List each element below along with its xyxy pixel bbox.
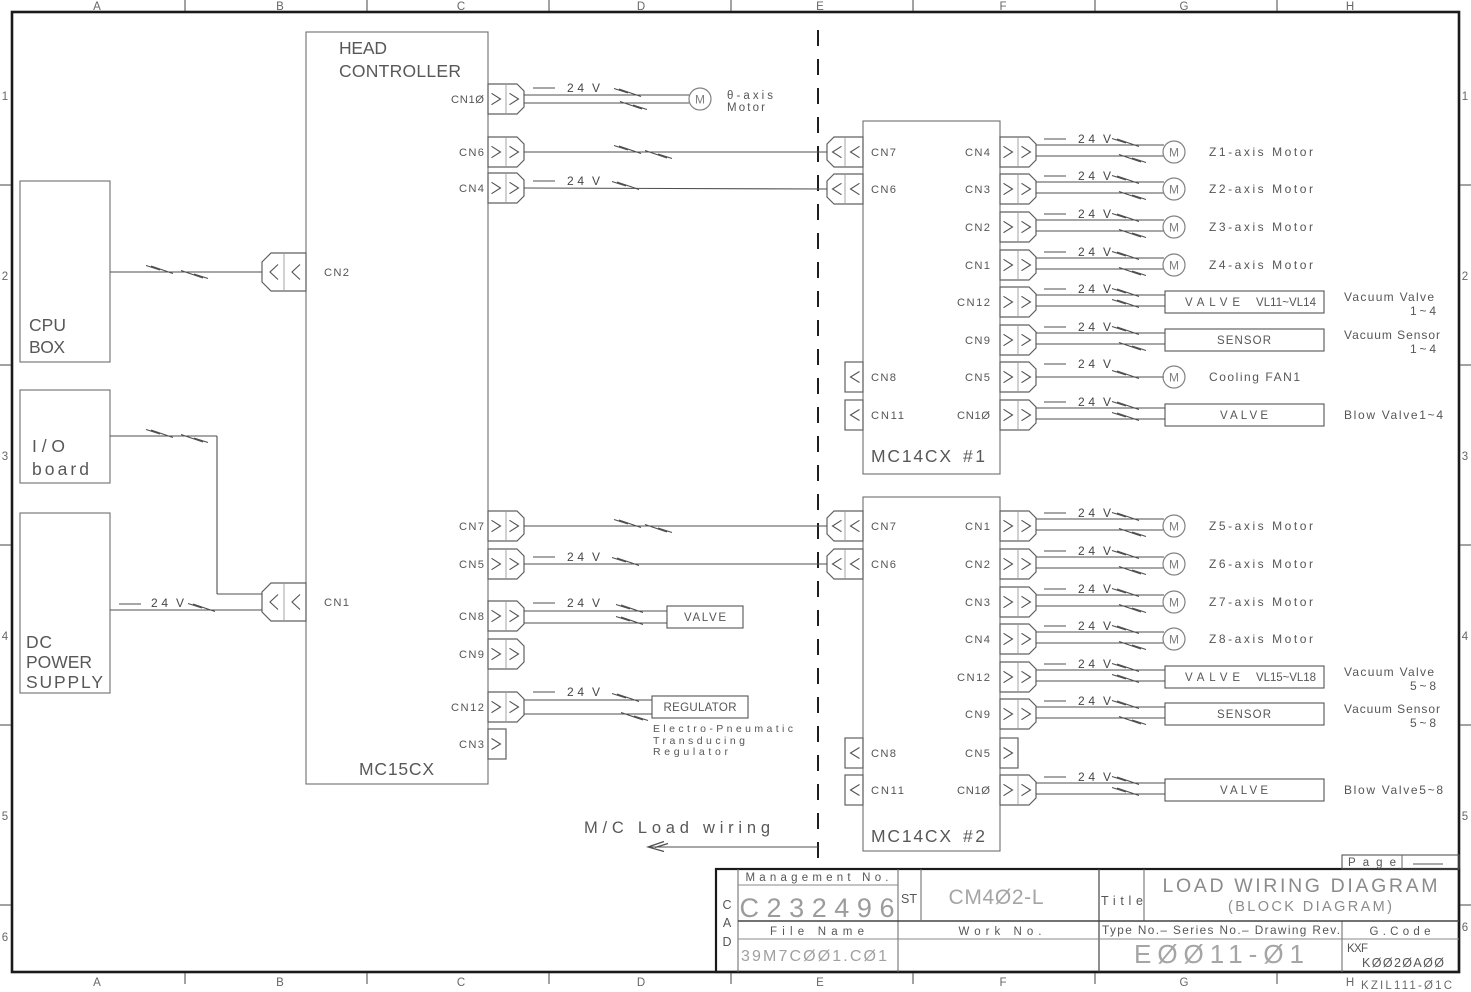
box VALVE xyxy=(1165,666,1324,688)
wire to Z8-axis Motor xyxy=(1036,619,1164,650)
svg-text:G: G xyxy=(1180,1,1189,13)
svg-text:CN9: CN9 xyxy=(965,335,990,347)
arrow M/C load wiring xyxy=(648,842,818,852)
svg-text:CN4: CN4 xyxy=(459,183,484,195)
connector CN1 (HEAD CONTROLLER) xyxy=(262,583,349,621)
label M/C Load wiring xyxy=(584,819,770,837)
connector CN4 right xyxy=(965,624,1036,654)
connector CN9 (HEAD CONTROLLER) xyxy=(459,639,524,669)
svg-text:CN4: CN4 xyxy=(965,634,990,646)
svg-text:CN1Ø: CN1Ø xyxy=(957,785,990,797)
label ('Vacuum Valve', 90) xyxy=(1344,290,1436,318)
motor theta-axis xyxy=(689,88,773,114)
svg-text:5: 5 xyxy=(2,811,8,823)
svg-text:CN9: CN9 xyxy=(459,649,484,661)
svg-text:3: 3 xyxy=(1462,451,1468,463)
svg-text:C: C xyxy=(457,1,465,13)
label Electro-Pneumatic Transducing Regulator xyxy=(653,723,793,758)
wire to VALVE box xyxy=(1036,770,1165,796)
ruler numbers right xyxy=(1462,91,1469,934)
svg-text:File Name: File Name xyxy=(770,926,864,938)
svg-text:SENSOR: SENSOR xyxy=(1217,709,1271,721)
connector CN8 (HEAD CONTROLLER) xyxy=(459,601,524,631)
wire to SENSOR box xyxy=(1036,694,1165,725)
ruler ticks left xyxy=(0,185,11,905)
svg-text:B: B xyxy=(276,1,284,13)
motor Z8-axis Motor xyxy=(1163,628,1313,650)
wire HEAD CN5 24V to MC14CX#2 CN6 xyxy=(524,550,827,566)
label ('Blow Valve5~8', 99) xyxy=(1344,783,1443,797)
svg-text:Vacuum Sensor: Vacuum Sensor xyxy=(1344,328,1440,342)
svg-text:Blow Valve1~4: Blow Valve1~4 xyxy=(1344,408,1443,422)
motor Z1-axis Motor xyxy=(1163,141,1313,163)
svg-text:Title: Title xyxy=(1101,894,1143,908)
connector CN6 (HEAD CONTROLLER) xyxy=(459,137,524,167)
svg-text:CN1: CN1 xyxy=(324,597,349,609)
connector CN7 left 2cell xyxy=(827,137,896,167)
wire to Z5-axis Motor xyxy=(1036,506,1164,537)
svg-text:CN8: CN8 xyxy=(871,372,896,384)
svg-text:H: H xyxy=(1346,977,1354,989)
box SENSOR xyxy=(1165,329,1324,351)
svg-text:CN6: CN6 xyxy=(459,147,484,159)
svg-text:4: 4 xyxy=(2,631,9,643)
svg-text:2: 2 xyxy=(2,271,8,283)
wire to Z1-axis Motor xyxy=(1036,132,1164,163)
motor Z4-axis Motor xyxy=(1163,254,1313,276)
box VALVE (head CN8) xyxy=(667,606,743,628)
svg-text:SENSOR: SENSOR xyxy=(1217,335,1271,347)
wire to VALVE box xyxy=(1036,657,1165,683)
svg-text:ST: ST xyxy=(901,892,917,906)
connector CN11 left cell xyxy=(845,400,904,430)
svg-text:CN12: CN12 xyxy=(957,672,990,684)
wire HEAD CN4 24V to MC14CX#1 CN6 xyxy=(524,174,827,190)
connector CN5 right xyxy=(965,362,1036,392)
title block Type No xyxy=(1102,923,1340,969)
svg-text:D: D xyxy=(637,977,645,989)
title block management no xyxy=(740,872,895,923)
svg-text:V: V xyxy=(1103,582,1111,596)
svg-text:2: 2 xyxy=(1462,271,1468,283)
motor Z6-axis Motor xyxy=(1163,553,1313,575)
svg-text:M: M xyxy=(1169,183,1179,197)
connector CN2 right xyxy=(965,212,1036,242)
svg-text:HEAD: HEAD xyxy=(339,38,387,58)
wire to Z3-axis Motor xyxy=(1036,207,1164,238)
label ('Blow Valve1~4', 99) xyxy=(1344,408,1443,422)
label ('Vacuum Sensor', 96) xyxy=(1344,702,1440,730)
svg-text:M: M xyxy=(1169,146,1179,160)
svg-text:Cooling FAN1: Cooling FAN1 xyxy=(1209,370,1300,384)
motor Z2-axis Motor xyxy=(1163,178,1313,200)
svg-text:V: V xyxy=(592,685,600,699)
svg-text:V: V xyxy=(1103,207,1111,221)
connector CN1 right xyxy=(965,250,1036,280)
svg-text:M: M xyxy=(1169,221,1179,235)
svg-text:CN8: CN8 xyxy=(871,748,896,760)
svg-text:Vacuum Valve: Vacuum Valve xyxy=(1344,665,1434,679)
title block ST CM402-L xyxy=(901,886,1043,909)
svg-text:CN1Ø: CN1Ø xyxy=(451,94,484,106)
svg-text:1: 1 xyxy=(2,91,8,103)
svg-text:CN7: CN7 xyxy=(871,147,896,159)
svg-text:CN7: CN7 xyxy=(871,521,896,533)
title block Work No xyxy=(959,926,1042,938)
connector CN7 left 2cell xyxy=(827,511,896,541)
connector CN8 left cell xyxy=(845,738,896,768)
svg-text:A: A xyxy=(93,977,101,989)
ruler ticks right xyxy=(1460,185,1471,905)
wire to Z2-axis Motor xyxy=(1036,169,1164,200)
connector CN3 (HEAD CONTROLLER) xyxy=(459,729,506,759)
connector CN12 right xyxy=(957,287,1036,317)
connector CN10 (HEAD CONTROLLER) xyxy=(451,84,524,114)
svg-text:B: B xyxy=(276,977,284,989)
motor Cooling FAN1 xyxy=(1163,366,1300,388)
wire to Z6-axis Motor xyxy=(1036,544,1164,575)
title block G.Code xyxy=(1347,926,1444,970)
wire HEAD CN6 to MC14CX#1 CN7 xyxy=(524,146,827,159)
svg-text:4: 4 xyxy=(1462,631,1469,643)
connector CN9 right xyxy=(965,325,1036,355)
connector CN8 left cell xyxy=(845,362,896,392)
svg-text:CM4Ø2-L: CM4Ø2-L xyxy=(949,886,1044,909)
box CPU BOX xyxy=(20,181,110,362)
label KZIL111-01C xyxy=(1361,980,1452,992)
wire to Z7-axis Motor xyxy=(1036,582,1164,613)
svg-text:BOX: BOX xyxy=(29,337,65,357)
svg-text:CN12: CN12 xyxy=(451,702,484,714)
svg-text:V: V xyxy=(1103,657,1111,671)
svg-text:CN2: CN2 xyxy=(324,267,349,279)
svg-text:V: V xyxy=(1103,770,1111,784)
wire to Cooling FAN1 xyxy=(1036,357,1164,379)
connector CN3 right xyxy=(965,174,1036,204)
svg-text:V: V xyxy=(1103,506,1111,520)
box MC14CX #2 xyxy=(863,497,1000,851)
svg-text:A: A xyxy=(93,1,101,13)
box REGULATOR xyxy=(652,696,748,718)
wire CN8 to VALVE xyxy=(524,596,667,625)
svg-text:CN1Ø: CN1Ø xyxy=(957,410,990,422)
svg-text:5~8: 5~8 xyxy=(1410,716,1436,730)
svg-text:39M7CØØ1.CØ1: 39M7CØØ1.CØ1 xyxy=(741,948,887,965)
svg-text:Electro-Pneumatic: Electro-Pneumatic xyxy=(653,723,793,735)
svg-text:1: 1 xyxy=(1462,91,1468,103)
svg-text:1~4: 1~4 xyxy=(1410,342,1436,356)
svg-text:V: V xyxy=(1103,544,1111,558)
svg-text:V: V xyxy=(1103,320,1111,334)
wire to VALVE box xyxy=(1036,282,1165,308)
svg-text:5: 5 xyxy=(1462,811,1468,823)
svg-text:SUPPLY: SUPPLY xyxy=(26,672,103,692)
svg-text:V: V xyxy=(592,174,600,188)
svg-text:V: V xyxy=(1103,357,1111,371)
svg-text:CN9: CN9 xyxy=(965,709,990,721)
box I/O board xyxy=(20,390,110,483)
title block Title xyxy=(1101,875,1438,915)
svg-text:MC14CX: MC14CX xyxy=(871,446,951,466)
svg-text:VALVE: VALVE xyxy=(684,612,726,624)
svg-text:CN11: CN11 xyxy=(871,410,904,422)
connector CN7 (HEAD CONTROLLER) xyxy=(459,511,524,541)
svg-text:D: D xyxy=(722,935,731,949)
svg-text:V: V xyxy=(1103,619,1111,633)
svg-text:CN11: CN11 xyxy=(871,785,904,797)
svg-text:REGULATOR: REGULATOR xyxy=(664,702,737,714)
svg-text:F: F xyxy=(999,977,1006,989)
svg-text:Vacuum Sensor: Vacuum Sensor xyxy=(1344,702,1440,716)
svg-text:E: E xyxy=(816,977,824,989)
wire I/O board to CN1 xyxy=(110,430,262,595)
wire CN10 to theta motor xyxy=(524,81,689,110)
svg-text:CN8: CN8 xyxy=(459,611,484,623)
ruler letters bottom xyxy=(93,977,1354,989)
svg-text:D: D xyxy=(637,1,645,13)
svg-text:V: V xyxy=(1103,694,1111,708)
connector CN1 right xyxy=(965,511,1036,541)
wire to SENSOR box xyxy=(1036,320,1165,351)
connector CN12 (HEAD CONTROLLER) xyxy=(451,692,524,722)
svg-text:VL15~VL18: VL15~VL18 xyxy=(1256,672,1316,684)
box VALVE xyxy=(1165,404,1324,426)
wire DC POWER SUPPLY 24V to CN1 xyxy=(110,596,262,612)
svg-text:CONTROLLER: CONTROLLER xyxy=(339,61,461,81)
svg-text:board: board xyxy=(32,459,89,479)
svg-text:1~4: 1~4 xyxy=(1410,304,1436,318)
svg-text:KØØ2ØAØØ: KØØ2ØAØØ xyxy=(1362,956,1444,970)
ruler ticks top xyxy=(185,0,1277,11)
svg-text:V: V xyxy=(592,596,600,610)
svg-text:V: V xyxy=(1103,395,1111,409)
connector CN2 (HEAD CONTROLLER) xyxy=(262,253,349,291)
svg-text:CN6: CN6 xyxy=(871,184,896,196)
svg-text:CN3: CN3 xyxy=(459,739,484,751)
connector CN4 (HEAD CONTROLLER) xyxy=(459,173,524,203)
svg-text:Type No.– Series No.– Drawing: Type No.– Series No.– Drawing Rev. xyxy=(1102,923,1340,937)
connector CN10 right xyxy=(957,400,1036,430)
svg-text:CN5: CN5 xyxy=(965,372,990,384)
svg-text:Blow Valve5~8: Blow Valve5~8 xyxy=(1344,783,1443,797)
svg-text:V: V xyxy=(1103,169,1111,183)
box HEAD CONTROLLER MC15CX xyxy=(306,32,488,784)
label ('Vacuum Valve', 90) xyxy=(1344,665,1436,693)
svg-text:V: V xyxy=(592,81,600,95)
svg-text:E: E xyxy=(816,1,824,13)
wire to VALVE box xyxy=(1036,395,1165,421)
svg-text:3: 3 xyxy=(2,451,8,463)
svg-text:C: C xyxy=(457,977,465,989)
svg-text:C: C xyxy=(722,898,731,912)
svg-text:V: V xyxy=(1103,282,1111,296)
svg-text:CN6: CN6 xyxy=(871,559,896,571)
connector CN5 (HEAD CONTROLLER) xyxy=(459,549,524,579)
svg-text:KXF: KXF xyxy=(1347,943,1368,955)
svg-text:MC15CX: MC15CX xyxy=(359,759,434,779)
svg-text:H: H xyxy=(1346,1,1354,13)
svg-text:M: M xyxy=(1169,558,1179,572)
box SENSOR xyxy=(1165,703,1324,725)
svg-text:CN5: CN5 xyxy=(459,559,484,571)
connector CN3 right xyxy=(965,587,1036,617)
ruler letters top xyxy=(93,1,1354,13)
connector CN10 right xyxy=(957,775,1036,805)
svg-text:M: M xyxy=(1169,259,1179,273)
svg-text:CN2: CN2 xyxy=(965,222,990,234)
connector CN6 left 2cell xyxy=(827,174,896,204)
svg-text:V: V xyxy=(1103,132,1111,146)
svg-text:6: 6 xyxy=(2,932,8,944)
box DC POWER SUPPLY xyxy=(20,513,110,693)
title block File Name xyxy=(741,926,887,965)
svg-text:EØØ11-Ø1: EØØ11-Ø1 xyxy=(1134,939,1304,969)
connector CN12 right xyxy=(957,662,1036,692)
svg-text:V: V xyxy=(592,550,600,564)
box VALVE xyxy=(1165,291,1324,313)
svg-text:MC14CX: MC14CX xyxy=(871,826,951,846)
svg-text:Vacuum Valve: Vacuum Valve xyxy=(1344,290,1434,304)
svg-text:V: V xyxy=(1103,245,1111,259)
svg-text:LOAD WIRING DIAGRAM: LOAD WIRING DIAGRAM xyxy=(1163,875,1438,897)
connector CN9 right xyxy=(965,699,1036,729)
box MC14CX #1 xyxy=(863,121,1000,474)
wire to Z4-axis Motor xyxy=(1036,245,1164,276)
svg-text:CN7: CN7 xyxy=(459,521,484,533)
wire CN12 to REGULATOR xyxy=(524,685,652,721)
svg-text:5~8: 5~8 xyxy=(1410,679,1436,693)
svg-text:(BLOCK DIAGRAM): (BLOCK DIAGRAM) xyxy=(1228,899,1392,915)
svg-text:CPU: CPU xyxy=(29,315,66,335)
svg-text:M: M xyxy=(1169,596,1179,610)
svg-text:VL11~VL14: VL11~VL14 xyxy=(1256,297,1317,309)
svg-text:CN5: CN5 xyxy=(965,748,990,760)
motor Z5-axis Motor xyxy=(1163,515,1313,537)
ruler numbers left xyxy=(2,91,9,944)
motor Z7-axis Motor xyxy=(1163,591,1313,613)
connector CN4 right xyxy=(965,137,1036,167)
svg-text:CN2: CN2 xyxy=(965,559,990,571)
svg-text:M: M xyxy=(1169,520,1179,534)
svg-text:6: 6 xyxy=(1462,922,1468,934)
M/C boundary dashed line xyxy=(817,30,819,861)
svg-text:M: M xyxy=(1169,371,1179,385)
svg-text:CN1: CN1 xyxy=(965,521,990,533)
connector CN11 left cell xyxy=(845,775,904,805)
svg-text:V: V xyxy=(176,596,184,610)
box VALVE xyxy=(1165,779,1324,801)
title block xyxy=(716,869,1459,972)
svg-text:DC: DC xyxy=(26,632,52,652)
title block page cell xyxy=(1342,855,1459,869)
wire HEAD CN7 to MC14CX#2 CN7 xyxy=(524,520,827,533)
svg-text:M: M xyxy=(695,93,705,107)
wire CPU BOX to CN2 xyxy=(110,266,262,279)
connector CN2 right xyxy=(965,549,1036,579)
svg-text:CN12: CN12 xyxy=(957,297,990,309)
label ('Vacuum Sensor', 96) xyxy=(1344,328,1440,356)
svg-text:CN4: CN4 xyxy=(965,147,990,159)
svg-text:CN3: CN3 xyxy=(965,184,990,196)
svg-text:M: M xyxy=(1169,633,1179,647)
svg-text:G: G xyxy=(1180,977,1189,989)
title block CAD xyxy=(722,898,731,949)
connector CN5 right xyxy=(965,738,1018,768)
svg-text:CN3: CN3 xyxy=(965,597,990,609)
svg-text:F: F xyxy=(999,1,1006,13)
connector CN6 left 2cell xyxy=(827,549,896,579)
motor Z3-axis Motor xyxy=(1163,216,1313,238)
svg-text:CN1: CN1 xyxy=(965,260,990,272)
ruler ticks bottom xyxy=(185,973,1277,984)
svg-text:POWER: POWER xyxy=(26,652,92,672)
svg-text:A: A xyxy=(723,916,732,930)
svg-text:KZIL111-Ø1C: KZIL111-Ø1C xyxy=(1361,980,1452,992)
